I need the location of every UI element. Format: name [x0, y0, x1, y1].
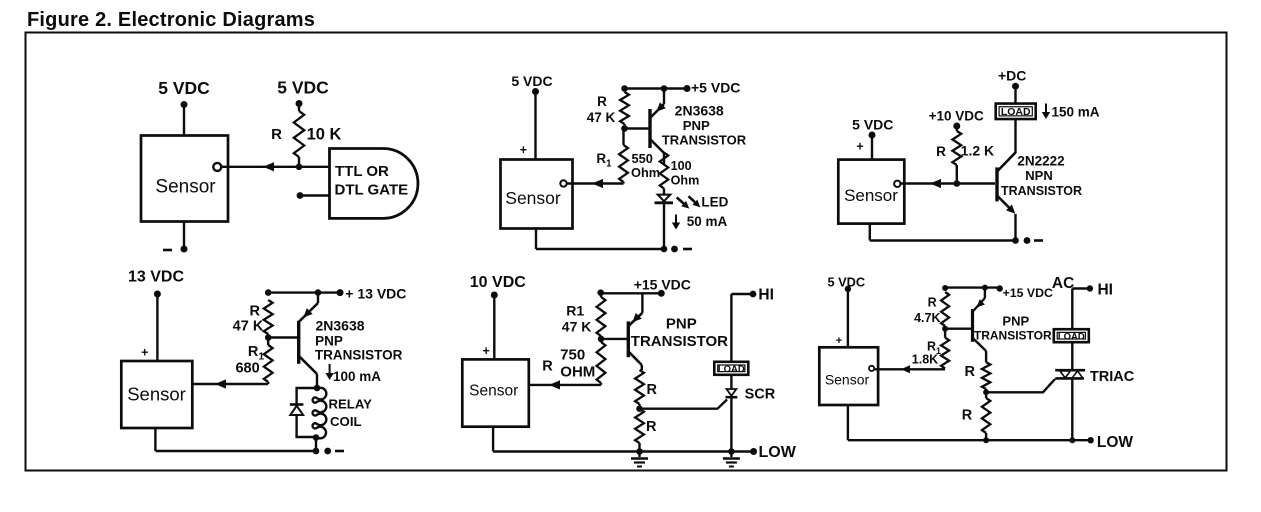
svg-text:R: R: [597, 94, 607, 109]
circuit 6: label R c6: [928, 296, 937, 310]
circuit 6: label 4.7K: [914, 311, 940, 325]
circuit 4: label 100 mA: [333, 369, 381, 384]
circuit 4: relay top node dot: [314, 385, 321, 392]
svg-text:HI: HI: [1097, 282, 1113, 299]
circuit 5: gate wire to SCR: [640, 400, 728, 409]
circuit 1: gate label DTL GATE: [335, 182, 409, 199]
circuit 2: label minus circuit 2: [683, 248, 692, 251]
circuit 1: signal arrow into sensor: [263, 162, 274, 171]
circuit 1: gate label TTL OR: [335, 163, 389, 180]
circuit 6: node dot R top: [942, 285, 948, 291]
circuit 5: terminal dot +15 VDC: [658, 290, 665, 297]
circuit 6: resistor R lower c6: [982, 398, 990, 433]
circuit 2: LED diode symbol: [655, 189, 674, 250]
circuit 4: wire sensor bottom lead: [154, 428, 156, 451]
circuit 3: node dot base: [954, 180, 961, 187]
circuit 5: label 47 K c5: [562, 319, 592, 335]
svg-text:R: R: [936, 144, 946, 159]
circuit 1: wire supply to sensor top: [183, 105, 185, 137]
circuit 2: label LED: [701, 195, 728, 210]
circuit 2: LED light arrows: [677, 196, 701, 208]
circuit 3: label 150 mA: [1052, 105, 1100, 120]
svg-text:47 K: 47 K: [233, 319, 264, 335]
circuit 4: label COIL: [330, 414, 362, 429]
circuit 5: label HI: [758, 287, 774, 304]
circuit 5: label plus sensor: [482, 344, 489, 358]
circuit 2: label Ohm 550: [631, 165, 660, 180]
circuit 6: wire base: [945, 328, 971, 330]
svg-text:TRIAC: TRIAC: [1090, 369, 1135, 385]
circuit 3: terminal dot 5 VDC: [869, 132, 876, 139]
circuit 3: label minus circuit 3: [1034, 239, 1043, 242]
circuit 3: transistor Q 2N2222 NPN: [997, 152, 1016, 241]
svg-text:+5 VDC: +5 VDC: [691, 80, 740, 96]
circuit 2: label R1: [596, 151, 612, 170]
svg-text:TRANSISTOR: TRANSISTOR: [315, 348, 403, 363]
circuit 4: label R1: [248, 344, 264, 363]
circuit 5: wire sensor output to 750 ohm: [529, 384, 601, 386]
svg-text:5 VDC: 5 VDC: [852, 117, 893, 133]
svg-text:+ 13 VDC: + 13 VDC: [345, 286, 406, 302]
circuit 3: wire +DC to load: [1014, 86, 1016, 104]
circuit 6: TRIAC symbol: [1055, 370, 1085, 440]
circuit 3: label NPN: [1025, 168, 1052, 183]
circuit 5: signal arrow into sensor: [549, 380, 560, 389]
circuit 3: resistor R 1.2 K: [952, 126, 961, 182]
circuit 4: relay diode: [290, 405, 304, 416]
circuit 5: label R wire: [542, 359, 553, 375]
svg-text:LOAD: LOAD: [1001, 106, 1031, 118]
circuit 2: wire base: [625, 127, 649, 129]
svg-text:LOW: LOW: [759, 444, 797, 461]
circuit 6: label +15 VDC c6: [1003, 286, 1053, 300]
circuit 4: wire base: [268, 336, 297, 338]
circuit 4: wire supply to sensor top: [156, 294, 158, 362]
circuit 5: wire R upper to node: [638, 404, 640, 409]
circuit 6: wire R upper to gate node: [985, 389, 987, 392]
circuit 3: terminal dot minus: [1024, 237, 1031, 244]
circuit 6: sensor box: [819, 347, 878, 405]
circuit 5: resistor R1 47 K: [597, 297, 606, 336]
circuit 3: terminal dot +10 VDC: [953, 123, 960, 130]
circuit 4: label 680: [235, 361, 259, 377]
circuit 6: terminal dot HI c6: [1087, 285, 1093, 291]
circuit 5: SCR symbol: [726, 389, 738, 452]
circuit 5: ground symbol left: [631, 452, 648, 467]
svg-text:50 mA: 50 mA: [687, 214, 728, 229]
circuit 2: terminal dot minus: [671, 246, 678, 253]
circuit 2: sensor box: [501, 160, 573, 229]
circuit 5: node dot rail center: [636, 448, 643, 455]
circuit 6: label TRANSISTOR c6: [974, 329, 1052, 343]
circuit 1: terminal dot pull-up 5 VDC: [296, 100, 303, 107]
circuit 3: wire sensor bottom lead: [869, 223, 871, 240]
svg-text:47 K: 47 K: [587, 110, 616, 125]
circuit 5: resistor 750 OHM: [597, 342, 606, 385]
circuit 2: resistor R1 550 Ohm: [619, 145, 628, 184]
svg-text:SCR: SCR: [745, 387, 776, 403]
circuit 4: wire sensor output to R1: [192, 383, 268, 385]
circuit 2: label TRANSISTOR: [662, 132, 747, 147]
circuit 4: relay coil: [313, 388, 327, 439]
circuit 4: bottom rail wire: [155, 450, 316, 452]
circuit 5: wire R1 top lead: [600, 293, 602, 297]
circuit 4: label 13 VDC sensor supply: [128, 269, 184, 286]
circuit 1: wire gate second input: [300, 194, 330, 196]
circuit 5: label 750: [560, 347, 585, 364]
svg-text:750: 750: [560, 347, 585, 364]
circuit 1: resistor R 10 K: [294, 104, 304, 166]
circuit 5: wire base: [601, 338, 627, 340]
circuit 6: label LOW c6: [1097, 434, 1134, 451]
svg-text:10 VDC: 10 VDC: [470, 274, 526, 291]
svg-text:5 VDC: 5 VDC: [511, 73, 552, 89]
circuit 2: label 50 mA: [687, 214, 728, 229]
circuit 4: label RELAY: [328, 397, 372, 412]
svg-text:+: +: [520, 143, 527, 157]
circuit 5: terminal dot 10 VDC: [491, 292, 498, 299]
svg-text:47 K: 47 K: [562, 319, 592, 335]
svg-text:PNP: PNP: [1002, 314, 1029, 329]
circuit 1: label 10 K: [307, 126, 342, 144]
svg-text:TRANSISTOR: TRANSISTOR: [631, 333, 728, 350]
circuit 3: sensor output bubble: [894, 181, 900, 187]
circuit 6: resistor R 4.7K: [941, 292, 949, 329]
circuit 3: wire base line: [901, 182, 995, 184]
circuit 5: transistor Q PNP: [628, 293, 642, 370]
circuit 1: label 5 VDC pull-up: [277, 78, 329, 98]
svg-text:Sensor: Sensor: [127, 384, 186, 405]
svg-text:LOAD: LOAD: [1058, 332, 1085, 343]
circuit 1: terminal dot 5 VDC: [181, 101, 188, 108]
circuit 5: wire HI to SCR line: [731, 294, 753, 363]
circuit 4: node dot R top: [265, 289, 272, 296]
circuit 1: sensor output bubble: [213, 163, 221, 171]
circuit 2: wire sensor output to R1: [567, 182, 624, 184]
circuit 1: label R: [271, 126, 282, 143]
circuit 4: label + 13 VDC: [345, 286, 406, 302]
circuit 3: label R 1.2K: [936, 144, 946, 159]
svg-text:5 VDC: 5 VDC: [158, 78, 210, 98]
circuit 4: wire R1 to base node: [267, 338, 269, 346]
circuit 2: label PNP: [683, 118, 710, 133]
circuit 3: label +10 VDC: [929, 109, 984, 124]
circuit 4: label TRANSISTOR: [315, 348, 403, 363]
circuit 6: wire R lower to rail: [985, 433, 987, 440]
circuit 6: wire supply to sensor top: [847, 289, 849, 348]
circuit 4: terminal dot minus: [324, 448, 331, 455]
circuit 1: AND gate TTL OR DTL GATE: [330, 149, 418, 219]
circuit 5: wire R lower to rail: [638, 443, 640, 452]
circuit 5: wire sensor bottom lead: [492, 427, 494, 452]
circuit 6: label R lower c6: [962, 408, 973, 424]
circuit 2: node dot emitter rail: [661, 85, 668, 92]
circuit 5: resistor R lower: [635, 409, 644, 443]
circuit 6: node dot base: [942, 326, 948, 332]
svg-text:550: 550: [632, 151, 653, 166]
circuit 2: top rail wire: [625, 87, 688, 89]
svg-text:+15 VDC: +15 VDC: [634, 277, 691, 293]
circuit 5: bottom rail LOW: [493, 450, 753, 452]
svg-text:5 VDC: 5 VDC: [277, 78, 329, 98]
circuit 3: terminal dot +DC: [1012, 83, 1019, 90]
circuit 6: label R1 c6: [927, 340, 941, 357]
svg-text:Sensor: Sensor: [825, 372, 870, 388]
circuit 1: node junction resistor-gate: [296, 164, 303, 171]
svg-text:1.2 K: 1.2 K: [961, 143, 994, 159]
svg-text:TRANSISTOR: TRANSISTOR: [1001, 184, 1082, 198]
circuit 5: sensor box: [462, 359, 529, 426]
circuit 5: label OHM: [560, 364, 595, 381]
svg-text:100 mA: 100 mA: [333, 369, 381, 384]
circuit 6: label plus sensor: [836, 335, 842, 347]
circuit 5: terminal dot HI: [750, 291, 757, 298]
svg-text:RELAY: RELAY: [328, 397, 372, 412]
circuit 2: resistor R 47 K: [620, 92, 629, 128]
circuit 6: node dot TRIAC bottom: [1069, 437, 1075, 443]
circuit 3: label 5 VDC sensor supply: [852, 117, 893, 133]
circuit 4: label 2N3638: [315, 318, 364, 334]
circuit 4: top rail wire: [268, 291, 340, 293]
circuit 6: load box c6: [1054, 329, 1089, 342]
circuit 3: label TRANSISTOR: [1001, 184, 1082, 198]
circuit 5: node dot SCR bottom: [728, 448, 735, 455]
circuit 2: signal arrow into sensor: [592, 179, 603, 188]
circuit 4: node dot base: [265, 334, 272, 341]
circuit 2: wire sensor bottom lead: [535, 229, 537, 250]
circuit 5: label PNP c5: [666, 316, 697, 333]
circuit 1: label 5 VDC sensor supply: [158, 78, 210, 98]
svg-text:TRANSISTOR: TRANSISTOR: [662, 132, 747, 147]
circuit 6: terminal dot +15 VDC: [997, 285, 1003, 291]
circuit 2: transistor Q 2N3638 PNP: [650, 89, 666, 165]
circuit 4: transistor Q 2N3638 PNP: [299, 293, 318, 388]
svg-text:COIL: COIL: [330, 414, 362, 429]
circuit 4: sensor box: [121, 361, 192, 428]
circuit 5: ground symbol right: [723, 452, 740, 467]
svg-text:LED: LED: [701, 195, 728, 210]
circuit 2: label 100: [671, 159, 692, 173]
circuit 5: node dot base: [598, 336, 605, 343]
circuit 5: load box c5: [714, 362, 748, 375]
svg-text:R: R: [647, 382, 658, 398]
svg-text:680: 680: [235, 361, 259, 377]
circuit 4: relay bottom node dot: [313, 434, 320, 441]
circuit 5: wire load to SCR: [730, 375, 732, 389]
circuit 3: wire supply to sensor top: [871, 135, 873, 160]
circuit 2: label 550: [632, 151, 653, 166]
circuit 2: terminal dot 5 VDC: [532, 88, 539, 95]
circuit 4: resistor R1 680: [264, 345, 273, 384]
circuit 4: label minus circuit 4: [335, 450, 344, 453]
circuit 4: current arrow 100 mA: [325, 364, 333, 380]
circuit 1: terminal dot gate second input: [297, 192, 304, 199]
circuit 1: terminal dot sensor minus: [181, 246, 188, 253]
circuit 1: label minus circuit 1: [163, 249, 172, 252]
svg-text:R: R: [542, 359, 553, 375]
circuit 2: node dot LED bottom: [661, 246, 668, 253]
svg-text:Ohm: Ohm: [671, 174, 700, 188]
circuit 4: terminal dot +13 VDC: [337, 289, 344, 296]
circuit 6: node dot gate c6: [983, 389, 989, 395]
circuit 6: wire sensor output to R1: [875, 368, 946, 370]
svg-text:+DC: +DC: [998, 68, 1026, 84]
svg-text:R: R: [271, 126, 282, 143]
circuit 3: label +DC: [998, 68, 1026, 84]
circuit 6: label 1.8K: [912, 353, 938, 367]
circuit 5: label R upper: [647, 382, 658, 398]
circuit 3: sensor box: [838, 160, 904, 224]
circuit 5: label R1 47K: [566, 303, 584, 319]
svg-text:R: R: [965, 364, 976, 380]
svg-text:R: R: [646, 419, 657, 435]
circuit 6: terminal dot LOW c6: [1088, 437, 1094, 443]
circuit 6: label TRIAC: [1090, 369, 1135, 385]
circuit 5: resistor R upper: [635, 370, 644, 404]
circuit 5: label TRANSISTOR c5: [631, 333, 728, 350]
circuit 3: label 1.2 K: [961, 143, 994, 159]
circuit 1: wire sensor bottom lead: [183, 222, 185, 250]
circuit 3: node dot emitter bottom: [1012, 237, 1019, 244]
circuit 3: bottom rail wire: [870, 239, 1016, 241]
circuit 2: label 2N3638: [675, 103, 724, 119]
circuit 3: signal arrow into sensor: [930, 179, 941, 188]
circuit 5: wire node joins: [600, 336, 602, 342]
circuit 5: label 10 VDC sensor supply: [470, 274, 526, 291]
circuit 6: label HI c6: [1097, 282, 1113, 299]
svg-text:LOAD: LOAD: [718, 364, 745, 375]
circuit 4: wire relay to bottom rail: [315, 438, 317, 452]
svg-text:PNP: PNP: [666, 316, 697, 333]
circuit 5: node dot R1 top: [597, 289, 604, 296]
svg-text:+10 VDC: +10 VDC: [929, 109, 984, 124]
svg-text:4.7K: 4.7K: [914, 311, 940, 325]
circuit 5: label +15 VDC: [634, 277, 691, 293]
circuit 6: wire gate node to R lower: [985, 392, 987, 398]
svg-text:Sensor: Sensor: [844, 186, 898, 205]
circuit 3: load box: [996, 104, 1036, 120]
circuit 2: sensor output bubble: [560, 180, 566, 186]
circuit 6: transistor Q PNP: [973, 288, 987, 363]
circuit 6: label PNP c6: [1002, 314, 1029, 329]
figure title: [27, 9, 315, 32]
circuit 6: bottom rail LOW c6: [848, 439, 1091, 441]
circuit 2: wire supply to sensor top: [534, 92, 536, 161]
circuit 6: node dot emitter rail: [982, 285, 988, 291]
svg-text:Sensor: Sensor: [505, 188, 561, 208]
circuit 3: current arrow 150 mA: [1042, 104, 1050, 120]
circuit 6: label AC: [1052, 275, 1074, 292]
svg-text:OHM: OHM: [560, 364, 595, 381]
svg-text:R: R: [962, 408, 973, 424]
svg-text:+: +: [856, 140, 863, 154]
circuit 4: resistor R 47 K: [264, 300, 273, 337]
svg-text:AC: AC: [1052, 275, 1074, 292]
svg-text:2N3638: 2N3638: [675, 103, 724, 119]
circuit 2: node junction base: [621, 125, 628, 132]
circuit 5: node dot gate: [636, 405, 643, 412]
circuit 4: terminal dot 13 VDC: [154, 291, 161, 298]
svg-text:13 VDC: 13 VDC: [128, 269, 184, 286]
circuit 4: node dot emitter rail: [315, 289, 322, 296]
circuit 2: node dot R top: [621, 85, 628, 92]
svg-text:Ohm: Ohm: [631, 165, 660, 180]
circuit 1: sensor box: [141, 136, 228, 222]
circuit 6: resistor R upper c6: [982, 362, 990, 389]
svg-text:1.8K: 1.8K: [912, 353, 938, 367]
svg-text:HI: HI: [758, 287, 774, 304]
circuit 2: label R 47K: [597, 94, 607, 109]
svg-text:10 K: 10 K: [307, 126, 342, 144]
svg-text:R1: R1: [596, 151, 612, 170]
circuit 6: label 5 VDC sensor supply: [827, 275, 865, 290]
circuit 4: label R 47K: [250, 304, 261, 320]
svg-text:DTL GATE: DTL GATE: [335, 182, 409, 199]
circuit 2: label +5 VDC: [691, 80, 740, 96]
svg-text:100: 100: [671, 159, 692, 173]
svg-text:150 mA: 150 mA: [1052, 105, 1100, 120]
circuit 2: terminal dot +5 VDC: [684, 85, 691, 92]
circuit 4: label 47 K: [233, 319, 264, 335]
svg-text:R: R: [928, 296, 937, 310]
circuit 5: label LOW: [759, 444, 797, 461]
circuit 4: relay frame wires: [297, 388, 317, 437]
svg-text:+: +: [141, 346, 148, 360]
circuit 6: wire HI to load: [1072, 289, 1090, 331]
circuit 2: label Ohm 100: [671, 174, 700, 188]
circuit 1: wire sensor output to gate input: [221, 166, 330, 168]
circuit 2: label 47 K: [587, 110, 616, 125]
circuit 4: label plus sensor: [141, 346, 148, 360]
circuit 6: wire load to TRIAC: [1071, 342, 1073, 370]
circuit 5: label SCR: [745, 387, 776, 403]
svg-text:LOW: LOW: [1097, 434, 1134, 451]
circuit 5: top rail wire: [601, 292, 661, 294]
circuit 4: signal arrow into sensor: [215, 379, 226, 388]
svg-text:NPN: NPN: [1025, 168, 1052, 183]
svg-text:+: +: [482, 344, 489, 358]
svg-text:Sensor: Sensor: [155, 176, 216, 197]
circuit 3: wire load to collector: [1014, 119, 1016, 152]
svg-text:2N2222: 2N2222: [1017, 154, 1064, 169]
svg-text:R: R: [250, 304, 261, 320]
circuit 6: terminal dot 5 VDC: [845, 286, 851, 292]
circuit 6: top rail wire: [945, 286, 1000, 288]
circuit 6: label R upper c6: [965, 364, 976, 380]
circuit 6: signal arrow into sensor: [901, 365, 910, 373]
circuit 6: resistor R1 1.8K: [941, 338, 949, 369]
circuit 2: label 5 VDC sensor supply: [511, 73, 552, 89]
svg-text:PNP: PNP: [683, 118, 710, 133]
circuit 6: gate wire to TRIAC: [986, 379, 1055, 392]
circuit 3: label 2N2222: [1017, 154, 1064, 169]
circuit 6: sensor output bubble: [869, 366, 874, 371]
circuit 6: node dot rail c6: [983, 437, 989, 443]
circuit 2: wire R1 top to base node: [622, 129, 624, 146]
circuit 3: label plus sensor: [856, 140, 863, 154]
svg-text:+15 VDC: +15 VDC: [1003, 286, 1053, 300]
circuit 6: wire sensor bottom lead: [847, 405, 849, 440]
svg-text:2N3638: 2N3638: [315, 318, 364, 334]
svg-text:TRANSISTOR: TRANSISTOR: [974, 329, 1052, 343]
svg-text:+: +: [836, 335, 842, 347]
svg-text:R1: R1: [566, 303, 584, 319]
circuit 2: label plus sensor: [520, 143, 527, 157]
circuit 4: label PNP: [315, 334, 343, 349]
svg-text:Sensor: Sensor: [469, 383, 518, 400]
circuit 5: label R lower: [646, 419, 657, 435]
circuit 4: node dot rail end: [313, 448, 320, 455]
